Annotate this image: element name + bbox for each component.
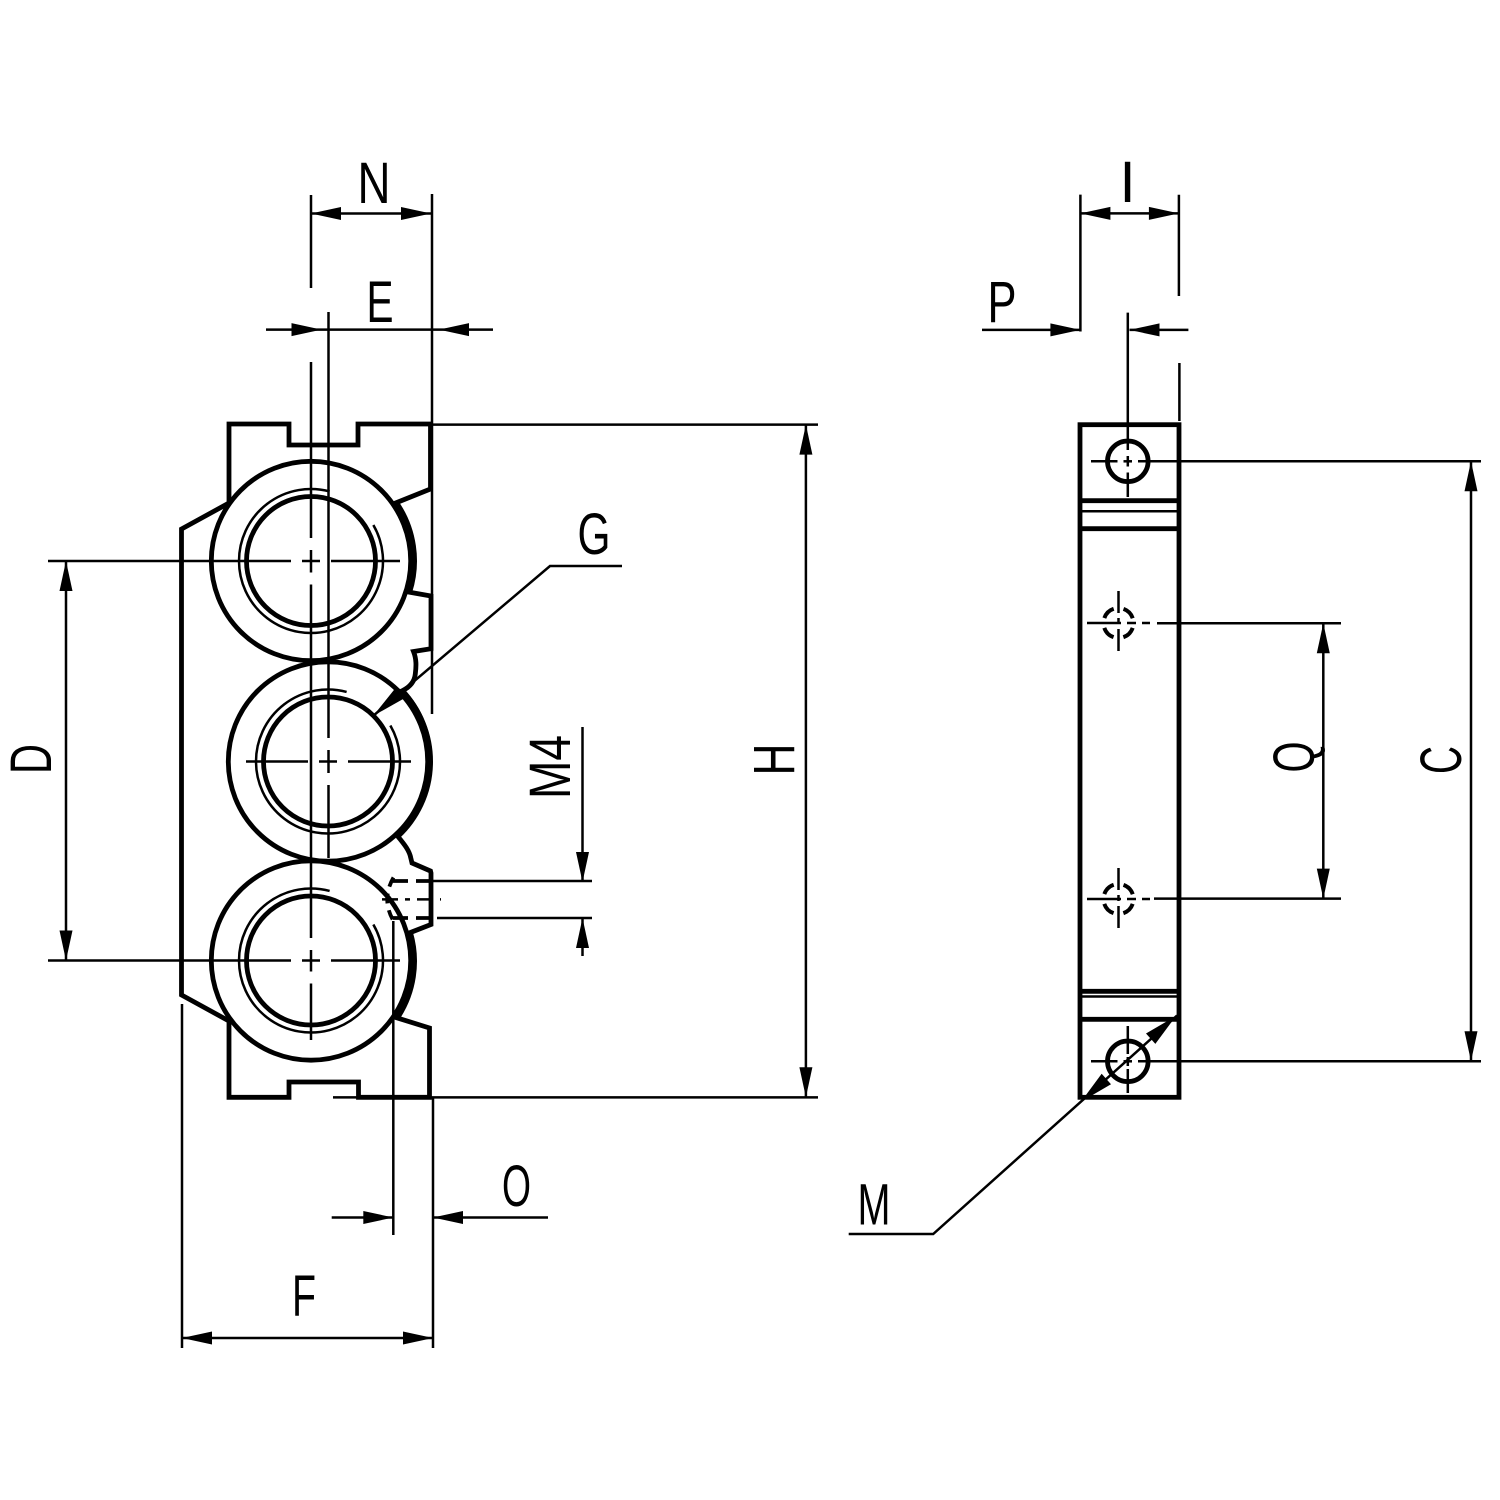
M4 hole centerline [382,898,441,901]
hidden hole lower centerline horizontal [1087,898,1150,901]
top hole centerline vertical [1127,313,1130,497]
dimension F extension left [181,1004,184,1348]
arrowhead N left [311,207,341,220]
svg-text:C: C [1409,746,1474,774]
arrowhead G leader [373,689,403,716]
svg-text:G: G [578,502,611,567]
arrowhead M4 top [576,852,589,882]
boss chamfer crescent bottom [395,933,412,1018]
svg-text:P: P [988,270,1017,335]
arrowhead H bottom [799,1067,812,1097]
boss chamfer crescent top [394,503,412,593]
arrowhead I left [1080,207,1110,220]
hidden hole lower centerline vertical [1117,868,1120,931]
hidden M4 hole top edge [393,879,431,883]
hidden M4 hole end cone [387,878,393,922]
side view top groove line lower [1080,526,1179,531]
arrowhead D top [60,561,73,591]
top hole centerline horizontal and C extension top [1091,460,1481,463]
boss chamfer crescent middle [397,691,429,836]
side view hidden hole upper [1104,608,1134,638]
arrowhead O right [433,1211,463,1224]
dimension M4 line lower [581,918,584,956]
hidden hole upper centerline horizontal [1087,622,1150,625]
thread arc middle port [256,689,400,833]
dimension N extension line [310,195,313,288]
arrowhead M leader upper [1146,1016,1176,1044]
leader G [373,566,622,716]
port boss outer circle bottom [211,861,410,1060]
thread arc top port [239,489,383,633]
dimension H extension bottom [333,1096,818,1099]
dimension I extension right [1178,195,1181,296]
port boss outer circle top [211,461,410,660]
leader M [849,1016,1177,1234]
dimension O line right [433,1216,548,1219]
bottom hole centerline horizontal and C extension bottom [1091,1060,1481,1063]
arrowhead N right [401,207,431,220]
port boss outer circle middle [228,662,427,861]
dimension C line [1470,461,1473,1061]
arrowhead C bottom [1465,1031,1478,1061]
dimension N line [311,212,431,215]
port inner bore bottom [247,896,376,1025]
centerline horizontal bottom port [48,959,400,962]
svg-text:I: I [1119,150,1135,215]
dimension O extension right [432,1097,435,1348]
centerline horizontal top port [48,560,400,563]
centerline vertical top/bottom ports [310,362,313,1040]
dimension Q extension bottom [1154,897,1341,900]
arrowhead M4 bottom [576,918,589,948]
side view bottom groove thin line [1080,995,1179,998]
dimension I line [1080,212,1179,215]
hidden hole upper centerline vertical [1117,591,1120,656]
dimension D line [65,561,68,961]
arrowhead F left [182,1332,212,1345]
dimension H extension top [433,423,818,426]
svg-text:Q: Q [1262,742,1327,773]
dimension P line right [1130,329,1189,332]
side view top groove thin line [1080,510,1179,513]
svg-text:O: O [502,1154,531,1219]
dimension F line [182,1337,433,1340]
dimension Q line [1322,623,1325,898]
svg-text:H: H [742,744,807,776]
dimension M4 extension bottom [437,917,592,920]
side view top mounting hole [1108,441,1149,482]
svg-text:F: F [292,1264,316,1329]
arrowhead F right [403,1332,433,1345]
side view hidden hole lower [1104,884,1134,914]
port inner bore top [247,497,376,626]
arrowhead C top [1465,461,1478,491]
hidden M4 hole bottom edge [393,916,431,920]
svg-text:D: D [0,744,64,774]
arrowhead I right [1149,207,1179,220]
svg-text:N: N [358,151,391,216]
side view body outline [1080,425,1179,1098]
arrowhead H top [799,425,812,455]
dimension I extension left [1079,195,1082,332]
extension line right face [431,194,434,714]
dimension O line left [332,1216,394,1219]
side view bottom groove line lower [1080,1017,1179,1022]
dimension I extension right lower segment [1178,363,1181,421]
dimension O extension left [392,921,395,1235]
bottom hole centerline vertical [1127,1026,1130,1093]
dimension E line [266,328,493,331]
side view top groove line upper [1080,498,1179,503]
dimension H line [805,425,808,1098]
arrowhead P right [1130,323,1160,336]
arrowhead P left [1050,323,1080,336]
svg-text:M4: M4 [518,735,583,799]
svg-text:M: M [858,1173,891,1238]
thread arc bottom port [239,888,383,1032]
arrowhead Q bottom [1317,869,1330,899]
centerline horizontal middle port [246,760,411,763]
arrowhead M leader lower [1081,1074,1111,1102]
dimension M4 extension top [433,880,592,883]
arrowhead E left [292,323,322,336]
arrowhead E right [439,323,469,336]
side view bottom mounting hole [1108,1041,1149,1082]
side view bottom groove line upper [1080,989,1179,994]
svg-text:E: E [367,270,394,335]
arrowhead O left [363,1211,393,1224]
centerline vertical middle port [327,312,330,858]
arrowhead D bottom [60,931,73,961]
arrowhead Q top [1317,623,1330,653]
manifold block outline (front view) [182,424,432,1097]
port inner bore middle [264,697,393,826]
dimension M4 line upper [581,727,584,882]
dimension P line left [982,329,1080,332]
dimension Q extension top [1157,622,1341,625]
